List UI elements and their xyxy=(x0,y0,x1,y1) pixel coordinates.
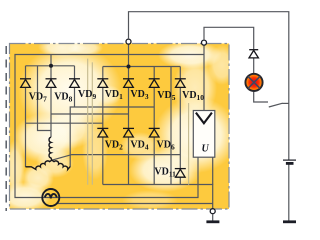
ground (battery side) xyxy=(283,220,296,223)
wire: negative bus to ground terminal xyxy=(103,185,213,209)
wire: VD5-VD6 column xyxy=(153,87,155,128)
wire: VD1-VD2 column xyxy=(102,87,104,128)
wire: neutral bus from star point xyxy=(52,155,181,161)
wire: VD8 anode down to stator coil xyxy=(50,87,52,137)
wire: VD7 anode to phase 3 and star left arm xyxy=(25,87,27,166)
wire: VD10 cathode stub xyxy=(179,67,181,79)
wire: phase 2 xyxy=(51,113,129,115)
wire: switch to battery bus xyxy=(282,102,289,104)
rectifier block right edge xyxy=(170,67,172,185)
wire: VD7-VD9 cathode bus xyxy=(26,65,75,67)
wire: VD1 cathode stub xyxy=(102,67,104,79)
wire: B+ terminal riser xyxy=(128,44,130,67)
wire: field rail from additional diodes to rotor brush and regulator xyxy=(15,55,204,198)
wire: VD4 anode drop xyxy=(128,137,130,185)
junction dot on main bus xyxy=(127,65,131,69)
wire: VD8 cathode stub xyxy=(50,66,52,79)
diode VD10 xyxy=(175,79,186,88)
diode VD6 xyxy=(149,128,160,137)
terminal ground (bottom) xyxy=(210,209,215,214)
diode VD5 xyxy=(149,79,160,88)
regulator chevron xyxy=(196,113,212,124)
diode VD2 xyxy=(97,128,108,137)
diode VD4 xyxy=(123,128,134,137)
wire: bus riser to field rail xyxy=(50,55,52,66)
wire: field terminal to regulator top xyxy=(203,45,205,111)
diode VD3 xyxy=(123,79,134,88)
voltage regulator U box xyxy=(193,111,215,158)
svg-text:U: U xyxy=(202,144,210,155)
terminal B+ (top) xyxy=(126,39,131,44)
wire: VD11 anode drop xyxy=(179,177,181,184)
battery GB xyxy=(283,160,296,163)
diode VD8 xyxy=(46,79,57,88)
generator housing border (dash-dot box) xyxy=(10,44,230,210)
ground (generator side) xyxy=(206,220,219,223)
wire: main cathode bus VD1-VD10 xyxy=(103,66,181,68)
wire: VD2 anode drop xyxy=(102,137,104,185)
wire: VD5 cathode stub xyxy=(153,67,155,79)
terminal field (top right) xyxy=(202,40,207,45)
diode VD (external blocking diode) xyxy=(249,50,258,58)
diode VD11 xyxy=(175,169,186,178)
switch blade xyxy=(269,103,283,107)
wire: stator frame lead xyxy=(38,66,52,131)
wire: external lamp branch xyxy=(204,27,254,49)
diode VD9 xyxy=(69,79,80,88)
wire: phase 1 xyxy=(70,107,154,167)
junction dot on additional-diode bus xyxy=(49,64,53,68)
diode VD7 xyxy=(20,79,31,88)
diode VD1 xyxy=(97,79,108,88)
wire: VD6 anode drop xyxy=(153,137,155,185)
wire: generator ground lead xyxy=(212,214,214,221)
wire: lamp to switch xyxy=(254,92,268,102)
indicator lamp HL xyxy=(245,74,262,91)
wire: VD10 anode to neutral bus xyxy=(179,87,181,168)
wire: blocking diode to lamp xyxy=(253,58,255,73)
wire: battery to ground xyxy=(288,164,290,222)
wire: VD9 anode to phase 1 xyxy=(74,87,76,107)
wire: external B+ run to battery xyxy=(129,12,289,160)
wire: VD3-VD4 column xyxy=(128,87,130,128)
wire: VD3 cathode stub xyxy=(128,67,130,79)
stator winding (three-phase star) xyxy=(26,137,71,169)
rotor field winding xyxy=(42,189,59,206)
wire: regulator right lead to ground xyxy=(212,157,214,184)
generator housing gradient fill xyxy=(0,37,238,212)
page-edge dash-dot line xyxy=(5,46,7,211)
wire: phase 3 xyxy=(26,122,103,124)
wire: VD9 cathode stub xyxy=(74,66,76,79)
wire: VD7 cathode stub xyxy=(25,66,27,79)
rectifier block faint left edges xyxy=(88,59,189,185)
wire: rotor lower brush to ground bus xyxy=(58,203,213,205)
